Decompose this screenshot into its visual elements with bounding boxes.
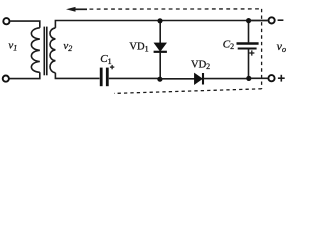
transformer core: [43, 27, 45, 76]
capacitor C2 (shunt, polarized): [248, 21, 250, 43]
output plus sign: [278, 75, 285, 82]
transformer secondary winding: [50, 28, 55, 73]
terminal: input top-left: [3, 18, 9, 24]
node: top rail / C2: [246, 18, 251, 23]
terminal: output bottom-right: [268, 75, 274, 81]
svg-text:VD1: VD1: [129, 42, 148, 54]
wire: secondary top to top rail: [55, 21, 267, 28]
wire: C1 to VD1 node: [109, 77, 160, 79]
terminal: output top-right: [269, 17, 275, 23]
C1 plus sign: [110, 65, 114, 69]
wire: secondary bottom to C1: [55, 73, 99, 79]
diode VD1 (vertical, anode top): [159, 21, 161, 43]
dashed loop bottom edge: [114, 89, 262, 94]
capacitor C1 (series, polarized): [100, 68, 103, 87]
diode VD2 (series, anode left): [194, 73, 202, 84]
svg-text:vo: vo: [277, 39, 287, 54]
wire: VD2 to C2 node: [203, 78, 249, 80]
node: bottom rail / C2: [246, 76, 251, 81]
wire: top-left terminal to primary: [10, 21, 40, 28]
wire: bottom-left terminal to primary: [10, 72, 40, 78]
terminal: input bottom-left: [3, 76, 9, 82]
node: top rail / VD1: [157, 18, 162, 23]
svg-text:v1: v1: [8, 40, 17, 53]
svg-text:C2: C2: [223, 38, 234, 51]
C2 plus sign: [249, 50, 254, 55]
svg-text:C1: C1: [100, 53, 111, 66]
svg-text:VD2: VD2: [191, 59, 210, 71]
dashed loop right edge: [261, 9, 263, 89]
transformer T primary winding: [31, 28, 39, 73]
wire: C2 node to output top terminal: [249, 20, 268, 22]
output minus sign: [278, 19, 284, 21]
node: bottom rail / VD1: [157, 77, 162, 82]
wire: C2 node to output bottom terminal: [249, 77, 268, 79]
svg-text:v2: v2: [63, 40, 72, 53]
wire: VD1 node to VD2: [160, 78, 195, 80]
dashed current-path arrow (top edge of dashed loop): [66, 7, 262, 12]
